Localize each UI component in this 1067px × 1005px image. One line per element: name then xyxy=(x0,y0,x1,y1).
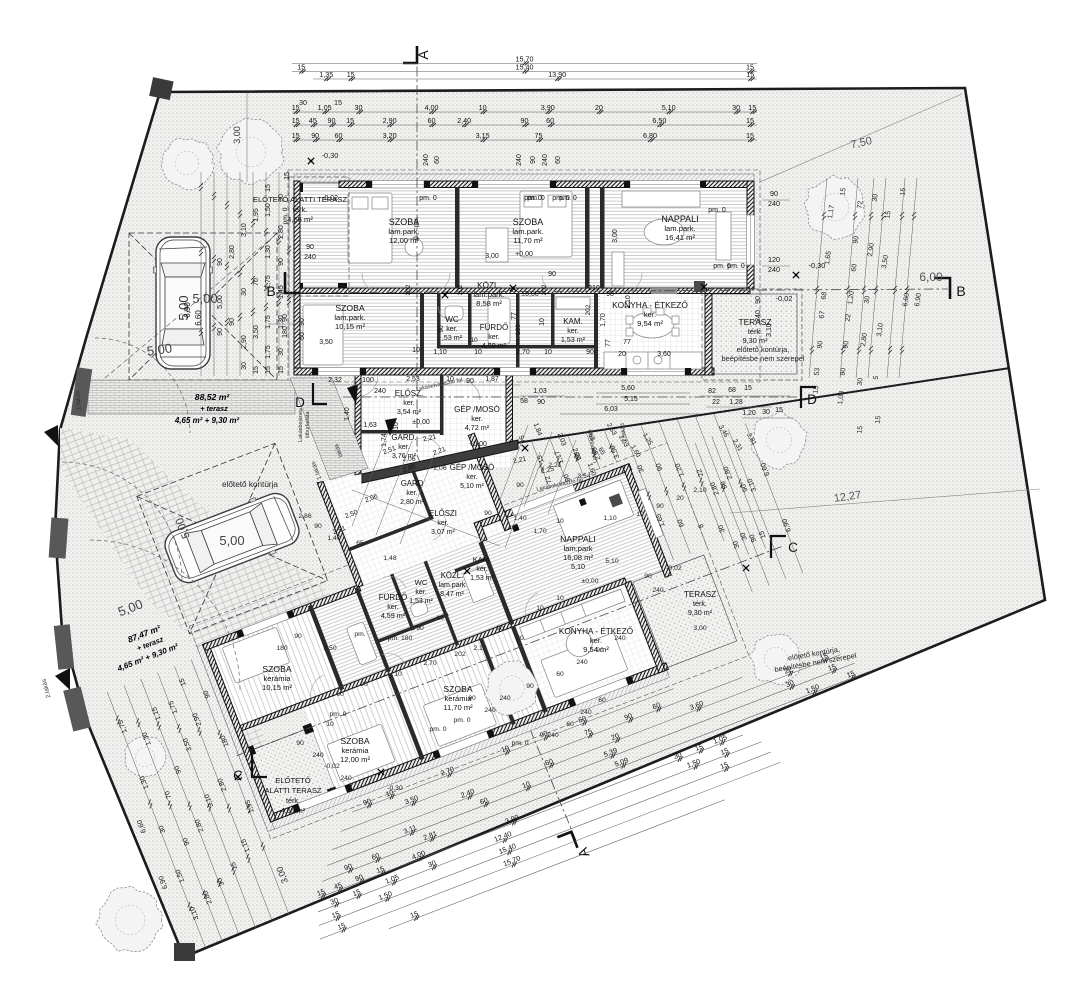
dwelling 2 floor slab xyxy=(207,495,630,731)
dwelling 1 partition walls xyxy=(361,187,605,435)
svg-text:90: 90 xyxy=(840,367,848,376)
car 1 xyxy=(154,237,213,369)
svg-text:16,08 m²: 16,08 m² xyxy=(563,553,593,562)
svg-text:térk.: térk. xyxy=(286,796,300,805)
svg-text:-0,02: -0,02 xyxy=(324,763,340,770)
tree 7 xyxy=(96,886,163,952)
svg-text:pm. 0: pm. 0 xyxy=(419,195,437,202)
dim lines between dwelling 1 and D-D xyxy=(330,385,792,418)
svg-text:FÜRDŐ: FÜRDŐ xyxy=(480,323,508,332)
parking bay 2 dashed rect with X (rotated) xyxy=(137,443,328,633)
svg-text:6,80: 6,80 xyxy=(643,131,657,140)
svg-text:11,70 m²: 11,70 m² xyxy=(443,703,473,712)
svg-text:1,20: 1,20 xyxy=(742,410,756,417)
svg-text:240: 240 xyxy=(542,154,549,166)
svg-text:SZOBA: SZOBA xyxy=(262,664,291,674)
tree 5 xyxy=(485,661,539,716)
svg-text:1,45: 1,45 xyxy=(278,285,285,299)
svg-text:B: B xyxy=(956,283,965,299)
survey marker xyxy=(793,272,799,278)
svg-text:180: 180 xyxy=(276,645,288,652)
svg-text:10: 10 xyxy=(470,337,478,344)
svg-text:15: 15 xyxy=(284,172,291,180)
dwelling 1 porch pillars xyxy=(294,283,303,292)
survey marker xyxy=(522,445,528,451)
svg-text:1,95: 1,95 xyxy=(253,208,260,222)
svg-text:2,90: 2,90 xyxy=(383,116,397,125)
svg-text:-0,02: -0,02 xyxy=(322,195,338,202)
svg-text:90: 90 xyxy=(817,340,825,349)
neighbour wall blocks on left boundary xyxy=(49,367,93,731)
dwelling 1 terrace (TERASZ 9,30) xyxy=(707,294,797,374)
svg-text:kerámia: kerámia xyxy=(263,674,291,683)
svg-text:5,00: 5,00 xyxy=(217,295,224,309)
svg-text:A: A xyxy=(415,50,431,60)
svg-text:10: 10 xyxy=(436,615,444,622)
svg-text:1,30: 1,30 xyxy=(265,245,272,259)
svg-text:pm. 0: pm. 0 xyxy=(727,263,745,270)
svg-text:180: 180 xyxy=(282,326,289,338)
section marker C left xyxy=(252,755,267,777)
svg-text:1,50: 1,50 xyxy=(265,203,272,217)
dim row d2 j xyxy=(386,791,726,930)
svg-text:15: 15 xyxy=(292,116,300,125)
svg-text:240: 240 xyxy=(755,310,762,322)
svg-text:1,48: 1,48 xyxy=(383,555,396,562)
svg-text:77: 77 xyxy=(511,312,518,320)
svg-text:ker.: ker. xyxy=(644,310,656,319)
dashed canopy outline around dwelling 1 xyxy=(288,170,760,382)
svg-text:240: 240 xyxy=(484,707,496,714)
svg-text:pm. 0: pm. 0 xyxy=(330,711,347,718)
dim row d2 e xyxy=(319,663,869,883)
svg-text:15: 15 xyxy=(857,425,865,434)
svg-text:KAM.: KAM. xyxy=(563,317,583,326)
svg-text:10: 10 xyxy=(539,318,546,326)
svg-text:77: 77 xyxy=(605,339,612,347)
svg-text:10,15 m²: 10,15 m² xyxy=(335,322,365,331)
svg-text:-0,02: -0,02 xyxy=(776,294,793,303)
svg-text:30: 30 xyxy=(278,348,285,356)
section marker D right xyxy=(801,387,816,408)
svg-text:4,59 m²: 4,59 m² xyxy=(381,611,406,620)
svg-text:90: 90 xyxy=(416,625,424,632)
svg-text:15: 15 xyxy=(347,70,355,79)
dwelling 1 canopy hatch band (roof edge) xyxy=(294,174,754,182)
svg-text:2,06: 2,06 xyxy=(402,456,415,463)
dwelling 1 outer walls xyxy=(294,181,754,475)
dwelling 1: covered entrance terrace (ELOTETO ALATTI TERASZ) xyxy=(294,183,345,291)
svg-text:240: 240 xyxy=(516,154,523,166)
svg-text:60: 60 xyxy=(434,156,441,164)
svg-text:90: 90 xyxy=(360,681,368,688)
svg-text:pm.: pm. xyxy=(354,631,365,638)
svg-text:5,00: 5,00 xyxy=(219,533,244,548)
svg-text:90: 90 xyxy=(296,740,304,747)
svg-text:10: 10 xyxy=(412,347,420,354)
svg-text:15: 15 xyxy=(885,210,893,219)
svg-text:0: 0 xyxy=(413,236,420,240)
party wall (Lakaselvalaszto fal) hatched band xyxy=(362,440,518,483)
svg-text:202: 202 xyxy=(585,304,592,315)
svg-text:1,70: 1,70 xyxy=(533,528,546,535)
svg-text:1,53 m²: 1,53 m² xyxy=(409,598,433,605)
svg-text:3,20: 3,20 xyxy=(383,131,397,140)
svg-text:90: 90 xyxy=(516,482,524,489)
svg-text:2,70: 2,70 xyxy=(516,349,530,356)
svg-text:Lakásbejárata: Lakásbejárata xyxy=(298,408,304,442)
svg-text:1,10: 1,10 xyxy=(625,295,632,309)
svg-text:6,90: 6,90 xyxy=(183,302,192,318)
svg-text:lam.park.: lam.park. xyxy=(473,290,504,299)
svg-text:53: 53 xyxy=(814,367,822,376)
left dimension columns xyxy=(200,172,202,376)
section line D-D xyxy=(306,396,801,398)
svg-text:15: 15 xyxy=(265,184,272,192)
dwelling 1 window piers xyxy=(312,181,706,375)
section marker D left xyxy=(313,383,327,404)
svg-text:90: 90 xyxy=(853,235,861,244)
bold area text dwelling 1 xyxy=(174,392,240,425)
svg-text:pm. 0: pm. 0 xyxy=(454,717,471,724)
svg-text:68: 68 xyxy=(728,387,736,394)
svg-text:60: 60 xyxy=(335,131,343,140)
svg-text:60: 60 xyxy=(546,116,554,125)
svg-text:ELŐTETŐ: ELŐTETŐ xyxy=(275,776,311,785)
walkway to dwelling 1 entrance xyxy=(290,378,368,480)
svg-text:3,10: 3,10 xyxy=(241,223,248,237)
svg-text:15: 15 xyxy=(748,103,756,112)
svg-text:10: 10 xyxy=(544,349,552,356)
entrance arrows on boundary xyxy=(44,425,58,446)
svg-text:240: 240 xyxy=(340,775,352,782)
svg-text:±0,00: ±0,00 xyxy=(412,419,430,426)
svg-text:3,50: 3,50 xyxy=(323,645,336,652)
svg-text:67: 67 xyxy=(819,310,827,319)
svg-text:+0,00: +0,00 xyxy=(515,251,533,258)
svg-text:22: 22 xyxy=(845,313,853,322)
svg-text:5,60: 5,60 xyxy=(621,385,635,392)
svg-text:D: D xyxy=(295,395,305,410)
svg-text:240: 240 xyxy=(768,199,780,208)
dwelling 2 entry wing floor xyxy=(317,424,510,587)
svg-text:GÉP /MOSÓ: GÉP /MOSÓ xyxy=(450,463,494,472)
svg-text:90: 90 xyxy=(530,156,537,164)
svg-text:70: 70 xyxy=(253,278,260,286)
svg-text:100: 100 xyxy=(362,377,374,384)
svg-text:+ terasz: + terasz xyxy=(200,404,228,413)
svg-text:9,54 m²: 9,54 m² xyxy=(637,319,663,328)
svg-text:68: 68 xyxy=(821,291,829,300)
svg-text:6,60: 6,60 xyxy=(194,310,203,326)
svg-text:15,40: 15,40 xyxy=(516,63,534,72)
svg-text:15: 15 xyxy=(292,131,300,140)
svg-text:6,50: 6,50 xyxy=(652,116,666,125)
svg-text:3,00: 3,00 xyxy=(485,253,499,260)
svg-text:4,65 m²: 4,65 m² xyxy=(281,806,306,815)
svg-text:pm. 0: pm. 0 xyxy=(708,207,726,214)
dim row d2 c xyxy=(329,646,842,851)
svg-text:15: 15 xyxy=(900,187,908,196)
svg-text:1,40: 1,40 xyxy=(513,515,526,522)
svg-text:202: 202 xyxy=(405,284,412,295)
svg-text:1,75: 1,75 xyxy=(265,345,272,359)
svg-text:3,60: 3,60 xyxy=(657,351,671,358)
svg-text:10: 10 xyxy=(393,422,400,430)
svg-text:90: 90 xyxy=(468,695,476,702)
svg-text:,53 m²: ,53 m² xyxy=(442,333,463,342)
svg-text:+0,00: +0,00 xyxy=(469,441,487,448)
svg-text:90: 90 xyxy=(328,116,336,125)
svg-text:pm. 0: pm. 0 xyxy=(282,207,289,224)
svg-text:3,50: 3,50 xyxy=(319,339,333,346)
svg-text:SZOBA: SZOBA xyxy=(340,736,369,746)
dim row d2 h xyxy=(316,744,772,928)
entry arrow dwelling 1 xyxy=(347,384,358,404)
svg-text:1,05: 1,05 xyxy=(318,103,332,112)
svg-text:1,53 m²: 1,53 m² xyxy=(561,335,586,344)
dim row d2 a xyxy=(349,680,674,813)
svg-text:90: 90 xyxy=(438,325,445,333)
svg-text:ker.: ker. xyxy=(403,398,415,407)
interior dimension labels dwelling 2 xyxy=(432,446,447,457)
entry arrow dwelling 2 xyxy=(385,418,397,436)
extra mid-region labels xyxy=(382,445,397,456)
svg-text:240: 240 xyxy=(652,587,664,594)
svg-text:C: C xyxy=(233,768,243,783)
svg-text:60: 60 xyxy=(598,697,606,704)
svg-text:2,80 m²: 2,80 m² xyxy=(400,499,424,506)
svg-text:előtető kontúrja,: előtető kontúrja, xyxy=(737,345,790,354)
svg-text:90: 90 xyxy=(282,314,289,322)
tree 3 xyxy=(804,175,865,239)
svg-text:90: 90 xyxy=(294,633,302,640)
svg-text:1,53 m²: 1,53 m² xyxy=(470,575,494,582)
svg-text:90: 90 xyxy=(311,131,319,140)
svg-text:30: 30 xyxy=(241,288,248,296)
svg-text:WC: WC xyxy=(415,578,428,587)
svg-text:30: 30 xyxy=(732,103,740,112)
svg-text:30: 30 xyxy=(241,362,248,370)
svg-text:90: 90 xyxy=(843,340,851,349)
svg-text:15: 15 xyxy=(813,385,821,394)
section marker B right xyxy=(934,278,950,299)
svg-text:10,15 m²: 10,15 m² xyxy=(262,683,292,692)
svg-text:20: 20 xyxy=(516,635,524,642)
svg-text:5,15: 5,15 xyxy=(624,396,638,403)
dim row d2 d xyxy=(324,655,855,868)
car 2 xyxy=(160,487,304,589)
survey marker xyxy=(510,285,516,291)
svg-text:pm. 0: pm. 0 xyxy=(559,195,577,202)
svg-text:90: 90 xyxy=(548,271,556,278)
svg-text:22: 22 xyxy=(712,399,720,406)
svg-text:5,10: 5,10 xyxy=(662,103,676,112)
svg-text:90: 90 xyxy=(314,523,322,530)
dwelling 2 canopy hatch band along gable xyxy=(197,644,274,831)
paved court between driveway and dwelling 2 xyxy=(60,428,330,652)
svg-text:202: 202 xyxy=(454,651,466,658)
svg-text:ker.: ker. xyxy=(567,326,579,335)
svg-text:90: 90 xyxy=(466,378,474,385)
section marker A bottom xyxy=(557,832,577,853)
svg-text:1,70: 1,70 xyxy=(600,313,607,327)
svg-text:45: 45 xyxy=(309,116,317,125)
svg-text:1,40: 1,40 xyxy=(344,407,351,421)
svg-text:240: 240 xyxy=(312,752,324,759)
svg-text:10: 10 xyxy=(556,595,564,602)
left vertical mini-dims in rotated frame xyxy=(107,692,205,948)
driveway band 1 xyxy=(88,380,295,414)
svg-text:90: 90 xyxy=(217,258,224,266)
svg-text:75: 75 xyxy=(535,131,543,140)
svg-text:ELŐSZI: ELŐSZI xyxy=(429,509,457,518)
svg-text:térk.: térk. xyxy=(748,327,762,336)
dwelling 1 entry wing floor xyxy=(357,372,510,468)
svg-text:2,40: 2,40 xyxy=(457,116,471,125)
svg-text:2,80: 2,80 xyxy=(278,225,285,239)
svg-text:90: 90 xyxy=(217,328,224,336)
svg-text:15: 15 xyxy=(746,131,754,140)
svg-text:2,53: 2,53 xyxy=(406,376,420,383)
svg-text:SZOBA: SZOBA xyxy=(513,217,544,227)
dwelling 2 dashed canopy outline xyxy=(189,443,749,839)
dim row d2 g xyxy=(315,733,762,913)
svg-text:90: 90 xyxy=(526,683,534,690)
svg-text:240: 240 xyxy=(499,695,511,702)
paving strip along dwelling 2 gable xyxy=(190,640,278,762)
svg-text:3,90: 3,90 xyxy=(541,103,555,112)
svg-text:88,52 m²: 88,52 m² xyxy=(195,392,231,402)
svg-text:60: 60 xyxy=(299,332,306,340)
svg-text:-0,30: -0,30 xyxy=(322,151,339,160)
svg-text:lam.park.: lam.park. xyxy=(664,224,695,233)
svg-text:pm. 180: pm. 180 xyxy=(515,324,522,348)
dwelling 1 floor slab xyxy=(299,186,748,292)
parking bay 1 dashed rect with X xyxy=(129,233,277,380)
svg-text:15: 15 xyxy=(875,415,883,424)
svg-text:9,30 m²: 9,30 m² xyxy=(688,608,713,617)
gate swing arcs xyxy=(95,338,190,433)
svg-text:útburkolata: útburkolata xyxy=(305,412,311,439)
svg-text:20: 20 xyxy=(676,495,684,502)
svg-text:lam.park.: lam.park. xyxy=(334,313,365,322)
svg-text:15: 15 xyxy=(253,366,260,374)
svg-text:ker.: ker. xyxy=(398,442,410,451)
svg-text:pm. 0: pm. 0 xyxy=(430,726,447,733)
dwelling 2 partitions xyxy=(274,452,548,778)
svg-text:GÉP /MOSÓ: GÉP /MOSÓ xyxy=(454,405,500,414)
svg-text:3,15: 3,15 xyxy=(476,131,490,140)
svg-text:térk.: térk. xyxy=(293,205,308,214)
svg-text:12,00 m²: 12,00 m² xyxy=(340,755,370,764)
survey marker xyxy=(464,568,470,574)
svg-text:ker.: ker. xyxy=(415,589,426,596)
svg-text:240: 240 xyxy=(547,732,559,739)
svg-text:1,75: 1,75 xyxy=(265,315,272,329)
section line A-A (vertical then angled) xyxy=(417,48,577,843)
svg-text:90: 90 xyxy=(496,625,504,632)
svg-text:KÖZL.: KÖZL. xyxy=(477,280,501,290)
svg-text:pm. 0: pm. 0 xyxy=(527,195,545,202)
svg-text:TERASZ: TERASZ xyxy=(684,590,716,599)
svg-text:65: 65 xyxy=(356,540,364,547)
12,27 dimension xyxy=(730,489,1040,513)
svg-text:15: 15 xyxy=(265,366,272,374)
svg-text:WC: WC xyxy=(445,315,459,324)
svg-text:KONYHA - ÉTKEZŐ: KONYHA - ÉTKEZŐ xyxy=(612,300,688,310)
dwelling 2 windows xyxy=(227,461,710,811)
svg-text:ALATTI TERASZ: ALATTI TERASZ xyxy=(264,786,321,795)
svg-text:15: 15 xyxy=(278,366,285,374)
dwelling 1 windows xyxy=(318,181,755,376)
svg-text:20: 20 xyxy=(595,103,603,112)
dwelling 2 outer walls xyxy=(163,376,703,822)
svg-text:6,00: 6,00 xyxy=(919,270,943,284)
svg-text:pm. 180: pm. 180 xyxy=(388,635,413,642)
svg-text:30: 30 xyxy=(278,194,285,202)
dwelling 2 (rotated) xyxy=(154,330,815,839)
dim row d2 i xyxy=(317,754,781,941)
tree 2 xyxy=(216,118,284,185)
svg-text:15: 15 xyxy=(746,70,754,79)
svg-text:60: 60 xyxy=(336,691,344,698)
fan of tick dims in wedge between divider and dwelling 2 xyxy=(530,375,771,613)
right vertical mini-dims in rotated frame (near C) xyxy=(695,443,752,592)
svg-text:2,80: 2,80 xyxy=(229,245,236,259)
dwelling 2 window piers xyxy=(227,498,653,813)
corner marker top-left xyxy=(149,77,173,100)
svg-text:13,90: 13,90 xyxy=(548,70,566,79)
svg-text:202: 202 xyxy=(457,284,464,295)
svg-text:10: 10 xyxy=(636,511,644,518)
svg-text:15: 15 xyxy=(775,407,783,414)
svg-text:30: 30 xyxy=(857,377,865,386)
svg-text:4,72 m²: 4,72 m² xyxy=(465,423,490,432)
svg-text:5,10: 5,10 xyxy=(605,558,618,565)
survey marker xyxy=(743,565,749,571)
svg-text:1,75: 1,75 xyxy=(265,275,272,289)
svg-text:10: 10 xyxy=(394,671,402,678)
svg-text:90: 90 xyxy=(537,399,545,406)
svg-text:15: 15 xyxy=(346,116,354,125)
svg-text:10: 10 xyxy=(536,605,544,612)
svg-text:SZOBA: SZOBA xyxy=(335,303,364,313)
svg-text:240: 240 xyxy=(423,154,430,166)
dim total 15,70 xyxy=(292,55,757,66)
dim total 13,90 xyxy=(313,70,757,81)
svg-text:ker.: ker. xyxy=(590,636,602,645)
plot divider line between dwelling 1 and dwelling 2 xyxy=(516,368,1010,443)
dwelling 1 door swing arcs xyxy=(356,273,642,400)
7,50 dimension xyxy=(760,94,962,182)
svg-text:90: 90 xyxy=(521,116,529,125)
svg-text:10: 10 xyxy=(474,349,482,356)
mid-region short dim lines between dwellings xyxy=(352,432,540,548)
svg-text:±0,00: ±0,00 xyxy=(521,291,539,298)
dwelling 1 furniture xyxy=(303,191,731,369)
survey marker xyxy=(378,769,384,775)
svg-text:NAPPALI: NAPPALI xyxy=(560,534,596,544)
dashed canopy outline around terrace xyxy=(702,289,802,380)
svg-text:3,00: 3,00 xyxy=(693,625,706,632)
svg-text:NAPPALI: NAPPALI xyxy=(661,214,698,224)
svg-text:15: 15 xyxy=(334,98,342,107)
dim row 2,90 xyxy=(292,116,757,127)
right dimension columns xyxy=(809,178,827,378)
svg-text:240: 240 xyxy=(614,635,626,642)
svg-text:20: 20 xyxy=(618,351,626,358)
